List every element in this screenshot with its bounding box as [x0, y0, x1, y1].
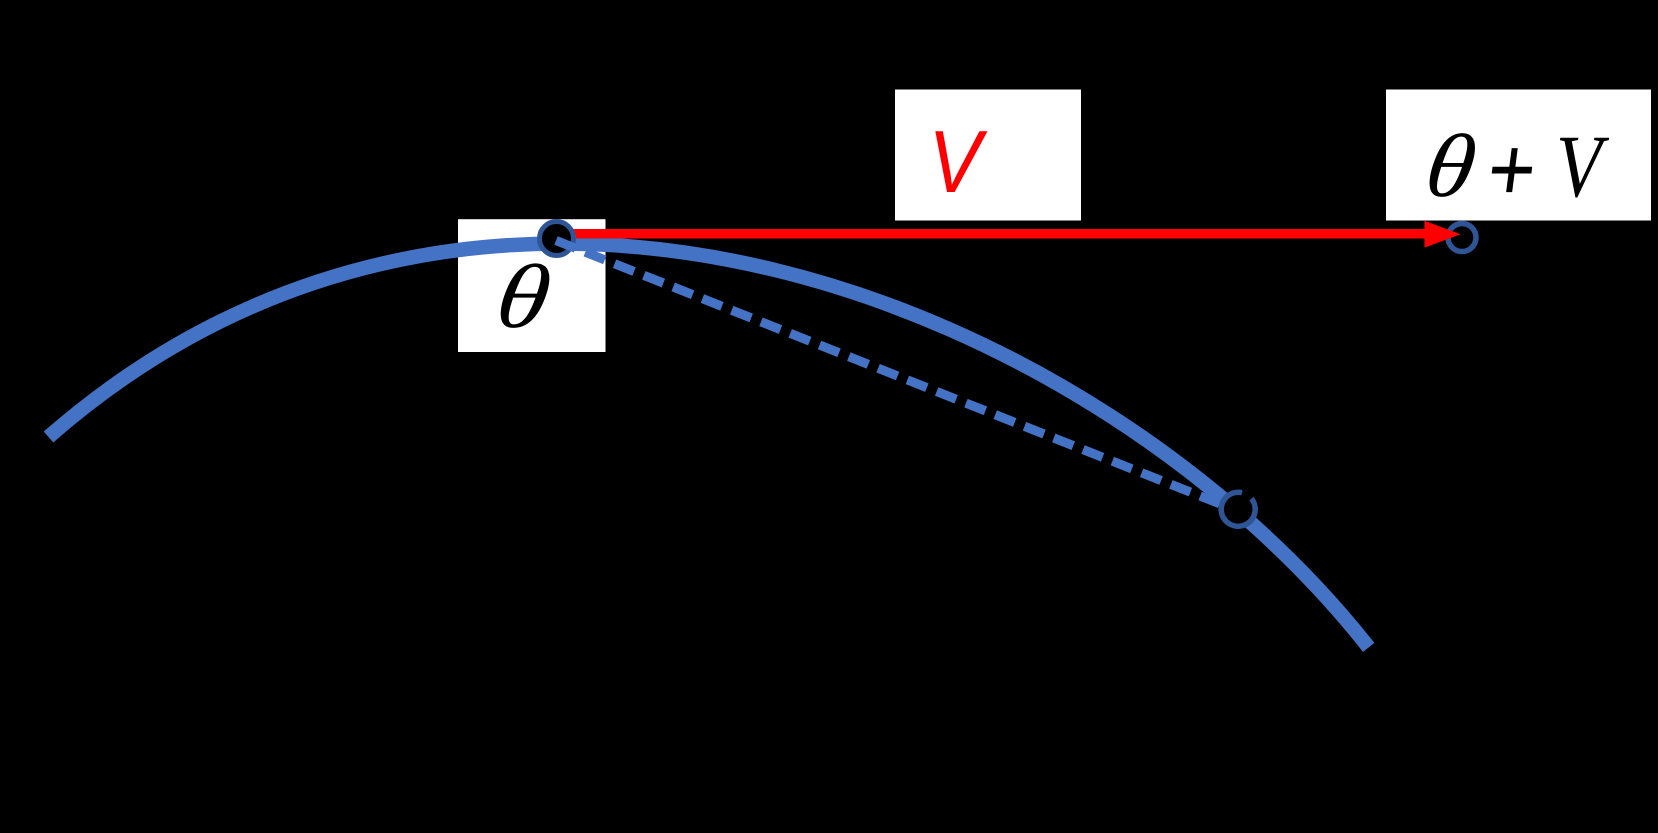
svg-text:V: V: [1556, 117, 1610, 215]
point theta+V ring: [1448, 224, 1476, 252]
vector V arrowhead: [1425, 221, 1461, 248]
vector V arrow shaft: [556, 229, 1430, 239]
label box theta: [458, 219, 606, 352]
second point dot fill: [1224, 495, 1253, 524]
chord dashed line: [556, 241, 1238, 512]
label box theta+V: [1386, 90, 1651, 221]
point theta dot: [540, 222, 574, 256]
manifold curve: [49, 244, 1369, 648]
label box V: [895, 90, 1081, 221]
second point dot ring (with gap at upper right): [1221, 492, 1255, 526]
svg-text:V: V: [929, 112, 989, 211]
